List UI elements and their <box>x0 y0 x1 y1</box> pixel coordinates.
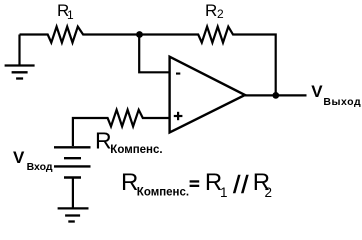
svg-text:R: R <box>205 1 217 20</box>
svg-text://: // <box>233 171 249 199</box>
svg-text:R: R <box>95 128 112 154</box>
svg-text:2: 2 <box>265 185 273 200</box>
svg-text:1: 1 <box>67 8 74 22</box>
svg-text:Вход: Вход <box>27 161 53 173</box>
svg-text:Выход: Выход <box>323 96 361 108</box>
svg-text:Компенс.: Компенс. <box>110 144 162 156</box>
svg-text:V: V <box>311 82 323 101</box>
svg-text:1: 1 <box>220 185 228 200</box>
svg-text:V: V <box>13 148 25 167</box>
svg-text:2: 2 <box>217 7 224 21</box>
svg-text:Компенс.: Компенс. <box>137 186 189 198</box>
svg-text:R: R <box>121 169 138 196</box>
